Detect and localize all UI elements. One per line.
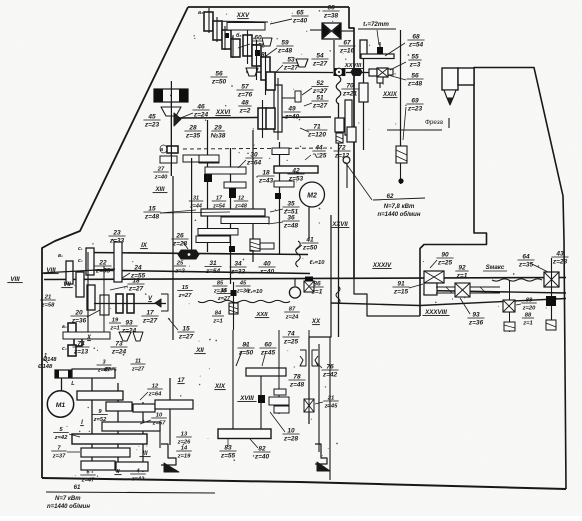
label 29 N38 bbox=[211, 124, 226, 139]
label 93 z=24 bbox=[120, 319, 137, 334]
label 20 z=36 bbox=[70, 309, 100, 324]
m1 shaft bbox=[61, 378, 63, 391]
feed box inner edge bbox=[329, 337, 331, 480]
gear 90 box bbox=[424, 271, 444, 283]
tall rect right bbox=[345, 100, 352, 135]
vert shaft xc bbox=[103, 266, 105, 332]
shaft II roman bbox=[114, 469, 121, 475]
bar r2b bbox=[274, 166, 318, 187]
screw shaft S1 bbox=[363, 58, 365, 150]
gear clutch pair bbox=[258, 108, 267, 129]
bar r1a bbox=[205, 167, 246, 174]
shaft XXIX vert bbox=[398, 163, 403, 184]
label 41 z=50 bbox=[301, 236, 318, 251]
small bevel c bbox=[282, 91, 301, 102]
label 44 d25 bbox=[312, 144, 327, 159]
leader 51b bbox=[304, 103, 312, 106]
label eps 10 bbox=[309, 260, 325, 266]
right feed line bbox=[425, 291, 566, 294]
label 17 z=27 bbox=[141, 309, 158, 324]
shaft IX line bbox=[88, 253, 308, 255]
shaft X line bbox=[94, 296, 166, 304]
vert shaft x160 bbox=[159, 422, 161, 448]
label 21 z=58 bbox=[40, 294, 55, 308]
label 34 z=32 bbox=[229, 260, 246, 275]
funnel shaft bbox=[318, 344, 320, 452]
leader 60 bbox=[238, 44, 250, 48]
label 82 z=40 bbox=[250, 439, 271, 460]
shaft 88 down bbox=[509, 280, 511, 332]
wavy right bbox=[492, 279, 542, 281]
clutch coupling bbox=[334, 68, 346, 76]
pulley shaft bbox=[170, 81, 172, 176]
row E bar bbox=[81, 448, 130, 457]
bevel cone under pulley bbox=[161, 107, 181, 116]
left gear col a bbox=[86, 248, 94, 275]
leader 65 bbox=[270, 19, 292, 24]
label 16 z=27 bbox=[177, 285, 192, 299]
leader 15l bbox=[160, 210, 196, 213]
row A bar bbox=[77, 391, 123, 400]
row C bar bbox=[102, 422, 160, 431]
rect below tall bbox=[347, 127, 356, 142]
screw nut N1 bbox=[360, 40, 367, 58]
label 15 mid bbox=[217, 288, 232, 302]
label 81 z=50 bbox=[236, 341, 255, 366]
label 62 motor bbox=[345, 162, 425, 218]
leader 81 bbox=[236, 351, 242, 366]
label 42 z=58 bbox=[287, 167, 304, 182]
label 36 z=48 bbox=[282, 214, 299, 229]
vertical to clutch bbox=[333, 40, 335, 68]
leader 59 bbox=[266, 48, 277, 56]
label 5 z=42 bbox=[53, 427, 80, 441]
shaft I roman bbox=[80, 420, 84, 426]
label 51 z=27 bbox=[311, 94, 328, 109]
shaft III roman bbox=[139, 451, 150, 457]
leader 30 bbox=[238, 160, 246, 168]
vert shaft x143 bbox=[142, 402, 144, 472]
shaft VII roman bbox=[61, 281, 73, 288]
outline diagonal left edge bbox=[42, 7, 188, 478]
shaft XIX roman bbox=[214, 383, 226, 390]
machine body outline (left gearbox contour) bbox=[188, 6, 349, 8]
label 74 z=13 bbox=[72, 340, 89, 355]
label 12 z=64 bbox=[140, 383, 163, 400]
hatched gear col4 bbox=[250, 239, 260, 251]
label 92 z=1 bbox=[455, 264, 468, 279]
label 56 z=50 bbox=[210, 70, 227, 85]
label 91 z=15 bbox=[392, 280, 423, 295]
label 57 z=76 bbox=[236, 83, 253, 98]
label d148 bbox=[38, 353, 53, 370]
motor pulley long bbox=[72, 369, 115, 378]
shaft XVIII roman bbox=[237, 395, 256, 402]
leader 36 bbox=[268, 222, 283, 224]
dashed fork line bbox=[183, 148, 332, 149]
label 49 z=40 bbox=[283, 105, 300, 120]
label 18 z=27 bbox=[110, 277, 145, 292]
shaft XXVII horiz bbox=[246, 71, 333, 74]
shaft XXXIV long line bbox=[86, 270, 310, 274]
label 60 z=50 bbox=[249, 34, 266, 49]
spindle taper bbox=[444, 90, 456, 98]
label 30 z=64 bbox=[245, 151, 262, 166]
leader 52 bbox=[302, 88, 312, 95]
label 25 z=1 bbox=[174, 260, 186, 274]
label 67 z=16 bbox=[338, 39, 355, 54]
bar under IX bbox=[196, 236, 230, 243]
handwheel circle bbox=[289, 279, 300, 298]
label d375 bbox=[103, 367, 117, 373]
label 72 z=12 bbox=[333, 144, 350, 159]
label 59 z=48 bbox=[276, 39, 293, 54]
label 28 z=35 bbox=[184, 124, 201, 139]
rect on 338 bbox=[335, 118, 344, 132]
label 78 z=48 bbox=[288, 373, 305, 388]
vertical shaft XXVIII bbox=[338, 103, 340, 337]
vert link l2 bbox=[170, 102, 172, 176]
bevel box XXV end bbox=[310, 23, 354, 39]
label 76 z=42 bbox=[316, 362, 339, 378]
roman XXII mid bbox=[255, 312, 269, 318]
label 14 z=19 bbox=[176, 445, 191, 459]
gear step extra bbox=[266, 72, 275, 90]
hatch on 338 bbox=[336, 133, 343, 143]
label 19 z=1 bbox=[104, 316, 121, 331]
xxix worm gear bbox=[396, 146, 407, 163]
shaft VIII out bbox=[7, 276, 22, 283]
label 68 z=54 bbox=[385, 33, 425, 56]
bar r5 bbox=[198, 229, 238, 236]
left small marks bbox=[58, 246, 83, 264]
gear a small bbox=[160, 145, 178, 153]
vert shaft col5 bbox=[279, 142, 281, 255]
label 15 z=27b bbox=[168, 318, 195, 340]
label 74 z=25b bbox=[282, 330, 299, 345]
row bars y155 bbox=[160, 155, 219, 182]
label eps2 bbox=[198, 289, 290, 303]
bar xxi rows bbox=[269, 397, 289, 413]
S1 rect bbox=[359, 83, 368, 102]
uni joint ball bbox=[343, 157, 350, 164]
shaft XXXIV roman bbox=[372, 262, 392, 269]
vert shaft IV mid bbox=[172, 176, 174, 340]
label 90 z=25 bbox=[430, 251, 454, 268]
left stack2 bbox=[62, 323, 82, 356]
bar xix bottom bbox=[218, 429, 271, 439]
shaft XXVII roman bbox=[331, 222, 350, 228]
bar r2a bbox=[272, 148, 289, 155]
row D wide bar bbox=[72, 434, 147, 444]
motor line 61 bbox=[46, 485, 215, 510]
label 10 z=28 bbox=[270, 412, 300, 442]
label 60 z=45 bbox=[259, 341, 276, 366]
label 13 z=26 bbox=[176, 431, 191, 445]
label 22 z=58 bbox=[94, 259, 111, 274]
shaft XXIX label bbox=[382, 92, 398, 98]
bracket pair right bbox=[155, 294, 168, 311]
label 64 z=35 bbox=[517, 253, 548, 272]
screw top dot bbox=[377, 42, 383, 54]
label 26 z=28 bbox=[171, 232, 188, 249]
feed box right edge bbox=[309, 215, 331, 424]
shaft L roman bbox=[71, 381, 75, 387]
gear bar top bbox=[227, 23, 265, 31]
label 69 z=23 bbox=[403, 97, 424, 140]
motor M2 bbox=[300, 182, 325, 207]
bevel diamond IX bbox=[178, 250, 199, 259]
motor pulley small bbox=[55, 370, 72, 378]
shaft VIII label bbox=[43, 267, 58, 274]
shaft XII roman bbox=[194, 347, 206, 354]
label 23 z=33 bbox=[108, 229, 125, 244]
shaft VIII line bbox=[42, 269, 115, 273]
label 73 z=24 bbox=[110, 340, 127, 355]
claw clutch pair bbox=[109, 294, 134, 313]
gear pair x309 bbox=[304, 277, 314, 293]
xbox small bbox=[304, 399, 314, 412]
shaft XXVI label bbox=[215, 109, 231, 116]
vert shaft col1 bbox=[191, 158, 193, 252]
freza tick bbox=[448, 118, 450, 128]
spindle cartridge bbox=[442, 68, 474, 90]
shaft 347 down bbox=[346, 164, 348, 188]
clutch black b bbox=[229, 193, 281, 252]
label 21 z=45 bbox=[315, 395, 339, 409]
shaft IX label bbox=[140, 242, 148, 249]
label 17 small bbox=[189, 195, 249, 209]
shaft XVIII vert bbox=[260, 372, 262, 432]
label 83 z=55 bbox=[219, 439, 236, 459]
wavy vert 338 bbox=[336, 286, 340, 304]
gear col mid bbox=[243, 35, 272, 66]
roman XXVIII bbox=[342, 63, 364, 69]
vert shaft x118 bbox=[117, 383, 119, 472]
row F bars bbox=[81, 461, 148, 471]
label 58 z=56 bbox=[252, 51, 269, 66]
label 71 z=120 bbox=[307, 123, 328, 138]
label d148 bbox=[43, 357, 57, 363]
tall gear z76 bbox=[274, 85, 282, 132]
vert shaft col4 bbox=[252, 130, 254, 262]
gear b3 col bbox=[222, 30, 242, 57]
vert shaft IV long bbox=[169, 378, 171, 445]
vert xxi bbox=[278, 330, 280, 414]
bar xxi a bbox=[274, 389, 286, 395]
label IV 17 bbox=[177, 378, 185, 384]
mid stack verticals bbox=[248, 30, 266, 95]
label 87 z=24 bbox=[284, 306, 299, 320]
label smax bbox=[483, 264, 507, 271]
label 6 z=47 bbox=[80, 469, 95, 483]
label 88 z=28 bbox=[516, 297, 537, 311]
small col mid bbox=[0, 0, 1, 1]
label 93 z=36 bbox=[460, 298, 485, 326]
shaft X roman bbox=[86, 335, 92, 341]
bevel wings bbox=[119, 332, 143, 341]
right gear cross bbox=[544, 258, 559, 330]
shaft XXV line bbox=[208, 21, 268, 22]
vert rod S3 bbox=[400, 30, 402, 149]
label 56 z=48 bbox=[388, 72, 424, 87]
right black sq bbox=[546, 296, 556, 306]
label 9 z=52 bbox=[92, 409, 107, 423]
label 52 z=29 bbox=[311, 80, 328, 95]
vert clutch shaft bbox=[263, 78, 279, 140]
bevel pair a bbox=[246, 59, 308, 76]
black tri IV bbox=[164, 463, 179, 472]
leader 35 bbox=[270, 209, 283, 212]
gear 20 col bbox=[100, 295, 109, 315]
shaft long line lower bbox=[44, 278, 566, 280]
bar r6 bbox=[256, 243, 274, 249]
label 48 z=2 bbox=[238, 99, 251, 114]
label 70 z=21 bbox=[341, 82, 358, 97]
left col row2 bbox=[66, 261, 73, 284]
vert shaft I bbox=[91, 378, 93, 466]
head gear cross bbox=[369, 68, 393, 88]
wavy spring top bbox=[336, 76, 341, 104]
top stack verticals bbox=[209, 8, 233, 58]
vert shaft col2 bbox=[207, 120, 209, 252]
shaft VII line bbox=[178, 117, 331, 118]
horiz shaft head bbox=[346, 69, 370, 76]
label XIII left bbox=[153, 187, 168, 193]
label 11 z=27 bbox=[131, 358, 146, 372]
gear 88 box bbox=[503, 300, 515, 312]
black bit xxi bbox=[258, 395, 265, 403]
label 24 z=55 bbox=[122, 264, 147, 279]
bracket IV bbox=[161, 444, 176, 465]
bars X row bbox=[63, 332, 110, 339]
drive pulley bbox=[154, 89, 188, 102]
gear a3 col bbox=[198, 10, 222, 40]
vert shaft col3 bbox=[230, 148, 232, 284]
cone clutch pair bbox=[300, 350, 318, 366]
label 15 z=48 bbox=[143, 205, 230, 220]
bar xiii top bbox=[199, 155, 219, 162]
shaft XX roman bbox=[311, 318, 321, 325]
label 88 z=1 bbox=[522, 312, 534, 326]
label 85 z=38 bbox=[213, 280, 251, 294]
label 54 z=27 bbox=[311, 52, 328, 67]
label 27 z=40 bbox=[153, 166, 168, 180]
label 43 z=28 bbox=[551, 250, 568, 265]
label 35 z=51 bbox=[282, 200, 299, 215]
feed box outline step bbox=[354, 279, 420, 316]
label 7 z=37 bbox=[51, 445, 80, 459]
label 46 z=24 bbox=[178, 103, 210, 119]
right bottom rect bbox=[546, 320, 556, 330]
label 84 z=1 bbox=[212, 282, 238, 330]
vert link l1 bbox=[87, 252, 89, 332]
M2 down shaft bbox=[308, 207, 310, 240]
leader 71 bbox=[300, 128, 309, 132]
tall gear z33 bbox=[114, 242, 122, 282]
screw arm bar bbox=[361, 54, 394, 59]
shaft XXXVIII line bbox=[331, 299, 566, 306]
gear 91 pair bbox=[424, 283, 437, 295]
label 55 z=3 bbox=[390, 53, 422, 70]
row B bars bbox=[106, 400, 193, 412]
hatch 88 bbox=[504, 322, 515, 331]
gear col mid2 bbox=[255, 50, 270, 80]
label t1=72mm bbox=[358, 21, 396, 45]
vert x309 bbox=[308, 330, 310, 424]
outline right step bbox=[349, 7, 354, 279]
funnel XXI bbox=[315, 444, 330, 471]
wavy coupling bbox=[296, 241, 301, 267]
label 3 z=47 bbox=[97, 359, 112, 373]
label 44 25 leader bbox=[305, 155, 311, 160]
clutch second rect bbox=[266, 108, 275, 129]
label 18 z=43 bbox=[257, 169, 274, 184]
clutch black a bbox=[229, 188, 236, 198]
lead screw rails bbox=[436, 287, 500, 293]
label 65 z=40 bbox=[270, 9, 309, 24]
bevel flag bbox=[174, 113, 181, 126]
machine head silhouette bbox=[420, 68, 566, 490]
bar big z64 bbox=[201, 209, 265, 216]
label 4 z=42 bbox=[130, 468, 145, 482]
spindle tip bbox=[447, 98, 453, 105]
shaft XXXVIII roman bbox=[423, 309, 450, 316]
mid gear col bbox=[76, 272, 95, 310]
outline bottom edge bbox=[42, 478, 566, 489]
shaft XXV label bbox=[236, 12, 250, 19]
leader 41 bbox=[296, 245, 302, 250]
label 10 z=57 bbox=[140, 412, 167, 426]
label 40 z=40 bbox=[258, 260, 275, 275]
leader 53 bbox=[276, 65, 283, 72]
bar r4 bbox=[221, 217, 269, 224]
label 53 z=27 bbox=[282, 56, 299, 71]
label 31 z=54 bbox=[204, 260, 221, 275]
bar xviii top bbox=[246, 368, 286, 376]
label 66 z=38 bbox=[322, 4, 339, 19]
shaft XIX vert bbox=[232, 330, 234, 432]
gear 92 box bbox=[455, 283, 470, 297]
motor M1 bbox=[47, 391, 73, 417]
label 86 z=1 bbox=[310, 280, 323, 295]
label 45 z=23 bbox=[143, 113, 160, 128]
bar r1b bbox=[224, 182, 246, 188]
freza label bbox=[387, 119, 444, 130]
